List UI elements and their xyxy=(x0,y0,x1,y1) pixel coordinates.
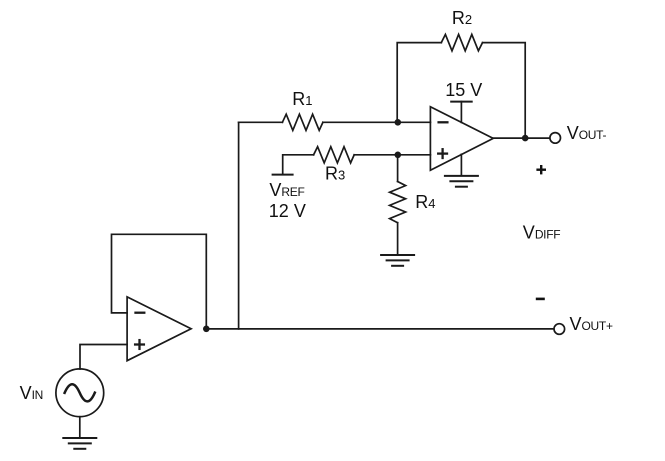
resistor R4 xyxy=(390,182,406,223)
U2 plus pin symbol xyxy=(438,149,447,158)
U1 plus pin symbol xyxy=(135,340,144,349)
wire R4 top stub xyxy=(397,155,399,182)
wire R1 left segment from left vertical rail xyxy=(239,121,283,123)
wire U1 non-inverting input from source xyxy=(80,345,127,370)
svg-text:VREF: VREF xyxy=(269,180,304,200)
voltage source VIN (AC) xyxy=(56,369,104,417)
resistor R1 xyxy=(282,114,323,130)
op-amp U1 (buffer) xyxy=(127,297,191,361)
ground (U2 negative supply) xyxy=(460,154,462,175)
15 V supply bar and lead xyxy=(451,101,472,103)
node junction at inverting input xyxy=(395,119,402,126)
svg-text:R3: R3 xyxy=(325,164,345,184)
terminal VOUT- open circle xyxy=(550,133,561,144)
svg-text:R2: R2 xyxy=(452,8,472,28)
VREF terminal bar xyxy=(273,174,293,176)
ground (below R4) xyxy=(381,255,414,266)
wire R2 feedback loop: top-left horizontal + left vertical down to inverting node xyxy=(397,43,441,123)
wire R3 to non-inverting input of U2 xyxy=(354,154,430,156)
svg-text:VIN: VIN xyxy=(20,383,43,403)
U1 minus pin symbol xyxy=(136,312,145,314)
op-amp U2 (difference amplifier) xyxy=(430,107,493,171)
resistor R2 xyxy=(441,34,482,50)
wire R4 bottom stub xyxy=(397,223,399,255)
resistor R3 xyxy=(314,147,355,163)
svg-text:R1: R1 xyxy=(292,89,312,109)
svg-text:12 V: 12 V xyxy=(269,201,306,221)
terminal VOUT+ open circle xyxy=(554,324,565,335)
node junction U1 output xyxy=(203,326,210,333)
polarity minus sign (VDIFF bottom) xyxy=(536,298,545,301)
svg-text:VOUT-: VOUT- xyxy=(567,123,607,143)
sine wave symbol xyxy=(65,384,95,401)
svg-text:15 V: 15 V xyxy=(445,80,482,100)
wire source to ground xyxy=(79,417,81,438)
U2 minus pin symbol xyxy=(439,121,448,123)
svg-text:VDIFF: VDIFF xyxy=(523,223,560,243)
wire R1 to inverting input of U2 xyxy=(323,121,431,123)
svg-text:R4: R4 xyxy=(415,192,435,212)
wire left vertical rail from R1 down to VOUT+ rail xyxy=(238,122,240,329)
polarity plus sign (VDIFF top) xyxy=(536,168,546,170)
svg-text:VOUT+: VOUT+ xyxy=(570,314,613,334)
wire VREF stub vertical xyxy=(283,155,314,175)
wire VOUT+ rail from U1 output to terminal xyxy=(206,328,554,330)
wire U1 feedback loop xyxy=(112,234,207,328)
wire U2 output to VOUT- terminal xyxy=(493,137,550,139)
wire R2 right side: horizontal + right vertical down to output node xyxy=(483,43,526,139)
ground (below VIN source) xyxy=(63,438,96,449)
node junction at non-inverting input xyxy=(395,152,402,159)
node junction output / feedback xyxy=(522,135,529,142)
